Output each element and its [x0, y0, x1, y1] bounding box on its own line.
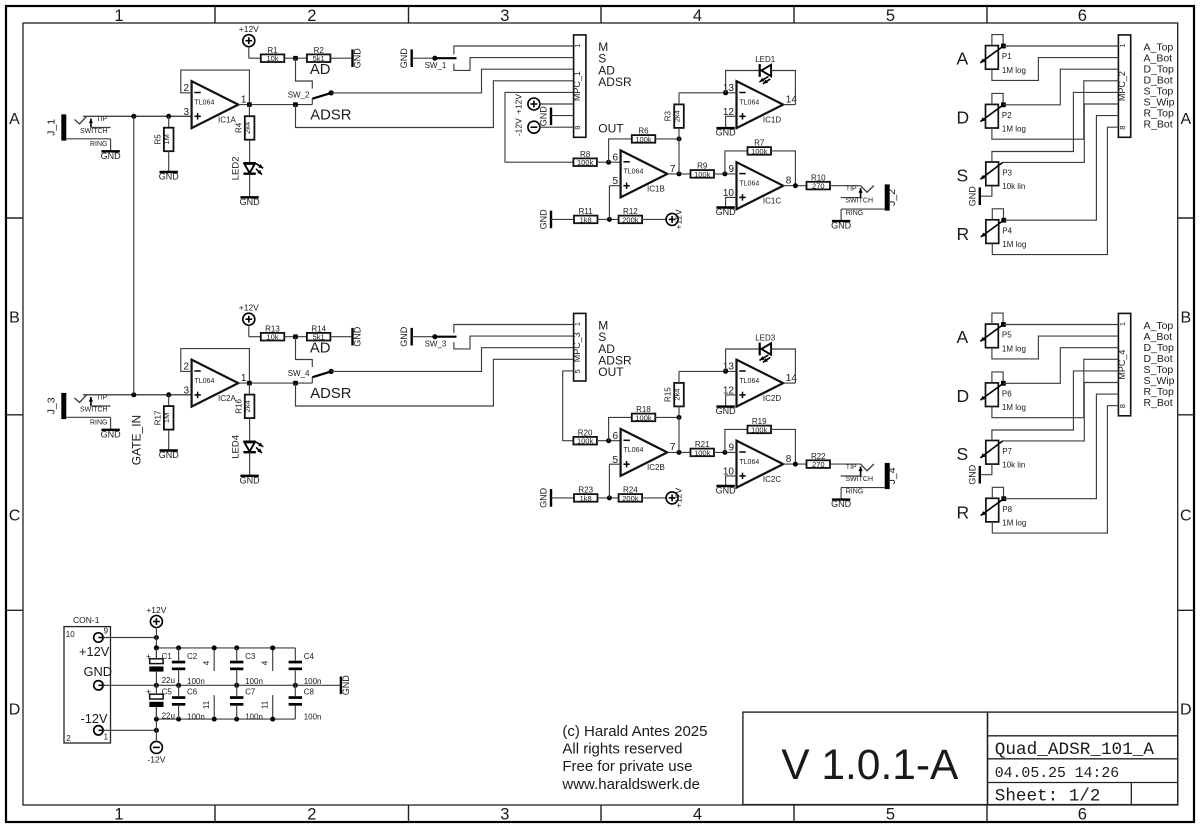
svg-text:A: A: [957, 327, 969, 347]
svg-text:1k8: 1k8: [580, 494, 592, 503]
svg-text:J_4: J_4: [886, 467, 898, 484]
svg-text:GND: GND: [240, 197, 261, 207]
svg-text:TL064: TL064: [739, 378, 759, 385]
svg-text:All rights reserved: All rights reserved: [562, 741, 682, 758]
svg-text:SWITCH: SWITCH: [80, 407, 108, 414]
svg-text:1M log: 1M log: [1002, 519, 1026, 528]
svg-text:GND: GND: [716, 207, 737, 217]
svg-text:1M log: 1M log: [1002, 125, 1026, 134]
svg-text:+12V: +12V: [674, 209, 684, 229]
svg-text:3: 3: [184, 385, 190, 396]
svg-text:TIP: TIP: [846, 185, 857, 192]
svg-text:R3: R3: [664, 111, 673, 122]
svg-text:GND: GND: [716, 128, 737, 138]
svg-text:6: 6: [613, 152, 619, 163]
svg-text:1M: 1M: [162, 413, 171, 423]
svg-text:Free for private use: Free for private use: [562, 758, 692, 775]
svg-text:P8: P8: [1002, 505, 1012, 514]
svg-text:Sheet: 1/2: Sheet: 1/2: [995, 786, 1101, 806]
svg-text:GND: GND: [159, 450, 180, 460]
svg-text:P6: P6: [1002, 390, 1012, 399]
svg-text:+12V: +12V: [674, 488, 684, 508]
svg-text:GND: GND: [539, 106, 549, 127]
svg-text:D: D: [957, 386, 970, 406]
svg-text:11: 11: [202, 700, 211, 709]
svg-text:SWITCH: SWITCH: [845, 198, 873, 205]
svg-text:R5: R5: [153, 134, 162, 145]
svg-text:1M log: 1M log: [1002, 240, 1026, 249]
svg-text:SW_4: SW_4: [288, 369, 310, 378]
svg-text:TL064: TL064: [739, 180, 759, 187]
svg-text:2k4: 2k4: [243, 122, 252, 134]
svg-text:IC2B: IC2B: [647, 463, 665, 472]
svg-text:R4: R4: [234, 122, 243, 133]
svg-text:6: 6: [1078, 7, 1087, 25]
svg-text:P1: P1: [1002, 52, 1012, 61]
svg-text:+12V: +12V: [239, 302, 259, 312]
svg-text:C3: C3: [245, 652, 256, 661]
svg-text:TL064: TL064: [195, 378, 215, 385]
svg-text:7: 7: [670, 442, 676, 453]
svg-text:C: C: [1180, 508, 1192, 525]
svg-text:CON-1: CON-1: [73, 615, 100, 625]
svg-text:R_Bot: R_Bot: [1144, 397, 1173, 409]
svg-text:GND: GND: [84, 664, 112, 679]
svg-text:3: 3: [500, 805, 509, 823]
svg-text:GND: GND: [353, 48, 363, 68]
svg-text:1k8: 1k8: [580, 215, 592, 224]
svg-text:100n: 100n: [304, 713, 322, 722]
svg-text:1: 1: [114, 805, 123, 823]
svg-text:R: R: [957, 224, 970, 244]
svg-text:S: S: [957, 444, 969, 464]
svg-text:C8: C8: [304, 687, 315, 696]
svg-text:10k: 10k: [266, 54, 278, 63]
svg-text:LED4: LED4: [230, 435, 241, 459]
svg-text:8: 8: [786, 176, 792, 187]
svg-text:+12V: +12V: [514, 94, 524, 114]
svg-text:GND: GND: [101, 429, 122, 439]
svg-text:C6: C6: [187, 687, 198, 696]
svg-text:C1: C1: [162, 652, 173, 661]
svg-text:A: A: [9, 111, 20, 128]
svg-text:1: 1: [114, 7, 123, 25]
svg-text:10k lin: 10k lin: [1002, 461, 1025, 470]
svg-text:4: 4: [202, 660, 211, 665]
svg-text:4: 4: [693, 7, 702, 25]
svg-text:R: R: [957, 502, 970, 522]
svg-text:1M log: 1M log: [1002, 66, 1026, 75]
svg-text:GND: GND: [716, 486, 737, 496]
svg-text:1: 1: [1118, 322, 1127, 326]
svg-text:GND: GND: [967, 186, 977, 207]
svg-text:1: 1: [573, 43, 582, 47]
svg-text:TL064: TL064: [624, 447, 644, 454]
svg-text:IC1D: IC1D: [763, 115, 781, 124]
svg-text:TL064: TL064: [195, 99, 215, 106]
svg-text:GND: GND: [101, 151, 122, 161]
svg-text:P3: P3: [1002, 169, 1012, 178]
svg-text:4: 4: [693, 805, 702, 823]
svg-text:8: 8: [786, 454, 792, 465]
svg-text:5: 5: [886, 805, 895, 823]
svg-text:4: 4: [260, 660, 269, 665]
svg-text:LED3: LED3: [755, 333, 776, 342]
svg-text:TIP: TIP: [96, 116, 107, 123]
svg-text:2k4: 2k4: [672, 389, 681, 401]
svg-text:C: C: [9, 508, 21, 525]
svg-text:+: +: [146, 687, 151, 697]
svg-text:2: 2: [66, 734, 71, 743]
svg-text:A: A: [1180, 111, 1191, 128]
svg-text:SWITCH: SWITCH: [845, 476, 873, 483]
svg-text:C7: C7: [245, 687, 256, 696]
svg-text:B: B: [1180, 310, 1191, 327]
svg-text:8: 8: [1118, 126, 1127, 130]
svg-text:GND: GND: [341, 675, 351, 696]
svg-text:OUT: OUT: [598, 121, 624, 135]
svg-text:A: A: [957, 49, 969, 69]
svg-text:100n: 100n: [187, 677, 205, 686]
svg-text:www.haraldswerk.de: www.haraldswerk.de: [561, 776, 700, 793]
svg-text:GND: GND: [967, 464, 977, 485]
svg-text:C5: C5: [162, 688, 173, 697]
svg-text:GATE_IN: GATE_IN: [130, 415, 144, 465]
svg-text:AD: AD: [310, 62, 331, 78]
svg-text:TL064: TL064: [739, 99, 759, 106]
svg-text:3: 3: [500, 7, 509, 25]
svg-text:100n: 100n: [304, 677, 322, 686]
svg-text:GND: GND: [353, 326, 363, 347]
svg-text:6: 6: [1078, 805, 1087, 823]
svg-text:ADSR: ADSR: [310, 107, 351, 123]
svg-text:R16: R16: [234, 399, 243, 414]
svg-text:3: 3: [184, 107, 190, 118]
svg-text:1: 1: [573, 322, 582, 326]
svg-text:RING: RING: [90, 141, 108, 148]
svg-text:LED2: LED2: [230, 157, 241, 181]
svg-text:-12V: -12V: [514, 118, 524, 136]
svg-text:MPC_3: MPC_3: [572, 332, 582, 362]
svg-text:1: 1: [104, 733, 109, 742]
svg-text:7: 7: [670, 164, 676, 175]
svg-text:P4: P4: [1002, 226, 1012, 235]
svg-text:+: +: [146, 652, 151, 662]
svg-text:J_1: J_1: [46, 119, 58, 136]
svg-text:GND: GND: [539, 487, 549, 508]
svg-text:100k: 100k: [694, 448, 711, 457]
svg-text:SW_2: SW_2: [288, 90, 310, 99]
svg-text:1: 1: [241, 373, 247, 384]
svg-text:2: 2: [307, 805, 316, 823]
svg-text:SW_3: SW_3: [425, 339, 447, 348]
svg-text:TIP: TIP: [846, 464, 857, 471]
svg-text:2k4: 2k4: [672, 110, 681, 122]
svg-text:MPC_2: MPC_2: [1117, 71, 1127, 101]
svg-text:270: 270: [812, 460, 825, 469]
svg-text:(c) Harald Antes 2025: (c) Harald Antes 2025: [562, 723, 707, 740]
svg-text:R_Bot: R_Bot: [1144, 119, 1173, 131]
svg-text:+12V: +12V: [79, 644, 110, 659]
svg-text:100k: 100k: [577, 437, 594, 446]
svg-text:100n: 100n: [245, 677, 263, 686]
svg-text:AD: AD: [310, 341, 331, 357]
svg-text:200k: 200k: [622, 494, 639, 503]
svg-text:100n: 100n: [187, 713, 205, 722]
svg-text:GND: GND: [716, 406, 737, 416]
svg-text:GND: GND: [831, 221, 852, 231]
svg-text:+12V: +12V: [146, 605, 166, 615]
svg-text:R17: R17: [153, 410, 162, 425]
svg-text:RING: RING: [90, 419, 108, 426]
svg-text:TL064: TL064: [739, 459, 759, 466]
svg-text:SW_1: SW_1: [425, 61, 447, 70]
svg-text:IC1C: IC1C: [763, 196, 781, 205]
svg-text:100k: 100k: [751, 425, 768, 434]
svg-text:-12V: -12V: [147, 755, 165, 765]
svg-text:OUT: OUT: [598, 365, 624, 379]
svg-text:LED1: LED1: [755, 55, 776, 64]
svg-text:1M: 1M: [162, 134, 171, 144]
svg-text:1: 1: [241, 94, 247, 105]
svg-text:100k: 100k: [635, 135, 652, 144]
svg-text:100k: 100k: [577, 158, 594, 167]
svg-text:GND: GND: [831, 499, 852, 509]
svg-text:D: D: [1180, 702, 1192, 719]
svg-text:J_3: J_3: [46, 397, 58, 414]
svg-text:SWITCH: SWITCH: [80, 128, 108, 135]
svg-text:100k: 100k: [694, 170, 711, 179]
svg-text:-12V: -12V: [81, 711, 108, 726]
svg-text:10: 10: [66, 630, 75, 639]
svg-text:B: B: [9, 310, 20, 327]
svg-text:100k: 100k: [751, 147, 768, 156]
svg-text:22u: 22u: [162, 676, 175, 685]
svg-text:D: D: [957, 108, 970, 128]
svg-text:C4: C4: [304, 652, 315, 661]
svg-text:S: S: [957, 166, 969, 186]
svg-text:D: D: [9, 702, 21, 719]
svg-text:2k4: 2k4: [243, 400, 252, 412]
svg-text:IC2C: IC2C: [763, 475, 781, 484]
svg-text:100k: 100k: [635, 413, 652, 422]
svg-text:8: 8: [1118, 404, 1127, 408]
svg-text:1: 1: [1118, 43, 1127, 47]
svg-text:8: 8: [573, 126, 582, 130]
svg-text:22u: 22u: [162, 712, 175, 721]
svg-text:IC1B: IC1B: [647, 185, 665, 194]
svg-text:270: 270: [812, 182, 825, 191]
svg-text:R15: R15: [664, 387, 673, 402]
svg-text:J_2: J_2: [886, 189, 898, 206]
svg-text:C2: C2: [187, 652, 198, 661]
svg-text:RING: RING: [846, 488, 864, 495]
svg-text:GND: GND: [159, 172, 180, 182]
svg-text:P2: P2: [1002, 111, 1012, 120]
svg-text:6: 6: [613, 431, 619, 442]
svg-text:1M log: 1M log: [1002, 344, 1026, 353]
svg-text:P5: P5: [1002, 331, 1012, 340]
svg-text:5: 5: [886, 7, 895, 25]
svg-text:2: 2: [307, 7, 316, 25]
svg-text:200k: 200k: [622, 215, 639, 224]
svg-text:04.05.25 14:26: 04.05.25 14:26: [995, 766, 1119, 782]
svg-text:ADSR: ADSR: [310, 386, 351, 402]
svg-text:V 1.0.1-A: V 1.0.1-A: [781, 742, 959, 789]
svg-text:TIP: TIP: [96, 394, 107, 401]
svg-text:MPC_4: MPC_4: [1117, 350, 1127, 380]
svg-text:11: 11: [260, 700, 269, 709]
svg-text:GND: GND: [539, 209, 549, 230]
svg-text:P7: P7: [1002, 447, 1012, 456]
svg-text:TL064: TL064: [624, 169, 644, 176]
svg-text:ADSR: ADSR: [598, 75, 632, 89]
svg-text:IC2D: IC2D: [763, 394, 781, 403]
svg-text:Quad_ADSR_101_A: Quad_ADSR_101_A: [995, 740, 1155, 760]
svg-text:+12V: +12V: [239, 24, 259, 34]
svg-text:9: 9: [104, 627, 109, 636]
svg-text:10k lin: 10k lin: [1002, 182, 1025, 191]
svg-text:RING: RING: [846, 210, 864, 217]
svg-text:10k: 10k: [266, 333, 278, 342]
svg-text:100n: 100n: [245, 713, 263, 722]
svg-text:MPC_1: MPC_1: [572, 71, 582, 101]
svg-text:GND: GND: [399, 48, 409, 68]
svg-text:5: 5: [573, 369, 582, 373]
svg-text:1M log: 1M log: [1002, 403, 1026, 412]
svg-text:GND: GND: [399, 326, 409, 347]
svg-text:GND: GND: [240, 475, 261, 485]
